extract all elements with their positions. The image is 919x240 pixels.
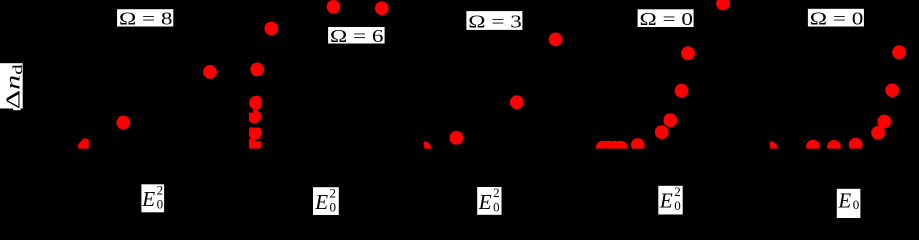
svg-text:0: 0 — [330, 200, 337, 215]
svg-text:E: E — [837, 189, 851, 213]
wire occluder panel1 right clip — [89, 135, 93, 150]
svg-text:E: E — [478, 190, 492, 214]
node xlabel1 E0^2 — [141, 182, 164, 212]
node panel1-point3 — [78, 138, 92, 152]
node panel4-point4 — [631, 138, 645, 152]
svg-text:0: 0 — [157, 197, 164, 212]
node label-omega0a — [638, 9, 694, 29]
node panel5-point4 — [849, 138, 863, 152]
node panel2-stack4 — [248, 137, 262, 151]
wire occluder stack left edge — [244, 95, 249, 150]
node panel4-point6 — [663, 113, 677, 127]
node label-omega3 — [466, 11, 522, 32]
node panel1-point1 — [203, 65, 217, 79]
node xlabel5 E0 — [837, 189, 861, 218]
wire occluder panel3 left clip — [417, 138, 424, 150]
node panel4-point5 — [655, 125, 669, 139]
wire occluder panel5 left clip — [763, 138, 770, 150]
node xlabel3 E0^2 — [477, 185, 501, 215]
node label-omega8 — [117, 9, 173, 29]
wire occluder panel1 left clip — [74, 134, 78, 150]
node panel1-point2 — [116, 116, 130, 130]
node panel4-bar3 — [608, 141, 622, 155]
wire occluder stack notch1 — [248, 110, 254, 112]
node panel4-bar2 — [602, 141, 616, 155]
node panel2-stack1 — [249, 96, 263, 110]
wire occluder stack notch2 — [252, 125, 263, 127]
node panel3-point3 — [510, 95, 524, 109]
node panel5-point7 — [885, 83, 899, 97]
node panel5-point6 — [877, 115, 891, 129]
svg-text:Ω = 8: Ω = 8 — [119, 9, 173, 29]
node panel4-point9 — [716, 0, 730, 10]
svg-text:E: E — [141, 187, 155, 211]
node panel2-point1 — [264, 22, 278, 36]
node panel4-bar1 — [596, 141, 610, 155]
node panel5-point1 — [764, 141, 778, 155]
node panel4-bar4 — [614, 141, 628, 155]
svg-text:0: 0 — [674, 198, 681, 213]
wire occluder panel1 diagonal clip — [78, 139, 83, 145]
node panel5-point5 — [871, 126, 885, 140]
node panel2-stack2 — [247, 110, 261, 124]
svg-text:Ω = 0: Ω = 0 — [810, 9, 864, 29]
svg-text:Ω = 0: Ω = 0 — [640, 9, 694, 29]
node panel3-point4 — [549, 33, 563, 47]
node panel5-point3 — [827, 140, 841, 154]
node panel4-point7 — [675, 84, 689, 98]
svg-text:2: 2 — [330, 185, 337, 200]
node panel3-point2 — [450, 131, 464, 145]
node xlabel2 E0^2 — [313, 185, 339, 215]
node panel2-point2 — [327, 0, 341, 14]
svg-text:2: 2 — [674, 184, 681, 199]
wire occluder stack notch3 — [256, 139, 263, 141]
svg-text:0: 0 — [493, 199, 500, 214]
svg-text:2: 2 — [157, 182, 164, 197]
node panel5-point2 — [806, 140, 820, 154]
svg-text:Ω = 3: Ω = 3 — [468, 12, 522, 32]
svg-text:2: 2 — [493, 185, 500, 200]
node panel2-point3 — [375, 1, 389, 15]
svg-text:E: E — [314, 190, 328, 214]
node panel2-point4 — [250, 63, 264, 77]
node ylabel dn_d — [0, 63, 26, 110]
node label-omega0b — [808, 9, 864, 29]
svg-text:0: 0 — [853, 197, 860, 212]
svg-text:E: E — [659, 189, 673, 213]
wire occluder stack right edge — [262, 95, 266, 150]
node panel2-stack3 — [248, 126, 262, 140]
node panel4-point8 — [681, 46, 695, 60]
svg-text:Ω = 6: Ω = 6 — [330, 26, 384, 46]
node panel5-point8 — [892, 45, 906, 59]
wire baseline occluder — [0, 149, 919, 183]
node panel3-point1 — [417, 141, 431, 155]
node xlabel4 E0^2 — [658, 184, 682, 215]
node label-omega6 — [328, 26, 385, 46]
